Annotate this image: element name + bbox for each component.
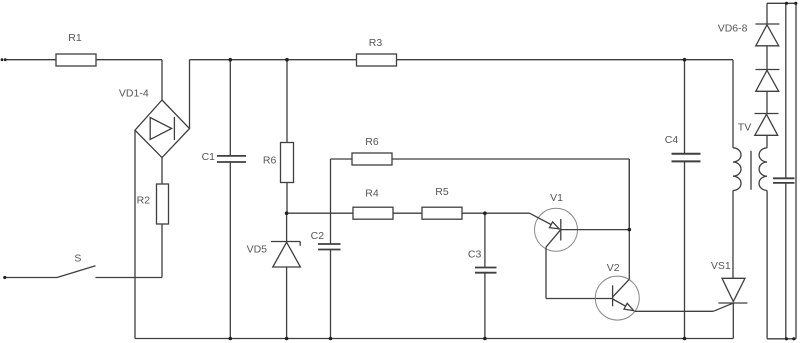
svg-text:R2: R2 <box>137 195 151 207</box>
svg-text:V1: V1 <box>550 192 563 204</box>
svg-text:R3: R3 <box>369 37 383 49</box>
svg-text:C4: C4 <box>665 134 679 146</box>
svg-text:R1: R1 <box>68 32 82 44</box>
svg-text:C3: C3 <box>468 249 482 261</box>
svg-text:R6: R6 <box>263 155 277 167</box>
svg-text:VD6-8: VD6-8 <box>718 23 748 35</box>
svg-text:R6: R6 <box>365 136 379 148</box>
svg-text:VS1: VS1 <box>711 260 731 272</box>
svg-text:V2: V2 <box>607 262 620 274</box>
svg-text:VD5: VD5 <box>247 244 268 256</box>
svg-text:R5: R5 <box>435 186 449 198</box>
svg-text:S: S <box>74 252 81 264</box>
svg-text:R4: R4 <box>365 188 379 200</box>
svg-text:VD1-4: VD1-4 <box>119 88 149 100</box>
svg-text:C2: C2 <box>311 230 325 242</box>
svg-text:TV: TV <box>738 122 751 134</box>
svg-text:C1: C1 <box>202 151 216 163</box>
